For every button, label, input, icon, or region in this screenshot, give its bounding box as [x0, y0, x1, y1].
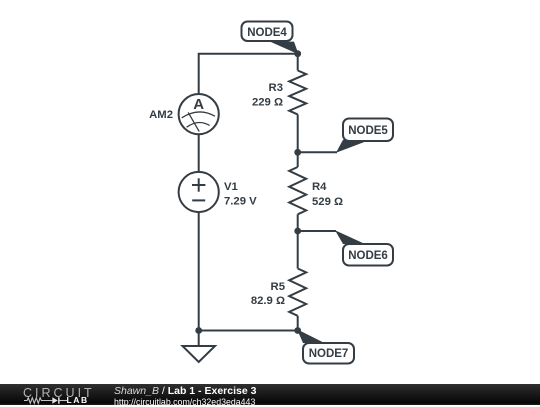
- svg-text:AM2: AM2: [149, 109, 173, 121]
- footer title line: [114, 386, 256, 396]
- svg-text:7.29 V: 7.29 V: [224, 196, 257, 208]
- wire ground stub: [198, 331, 200, 346]
- wire top horizontal: [199, 54, 298, 94]
- callout tail NODE5: [336, 140, 365, 153]
- node label box NODE6: [343, 244, 393, 266]
- wire node5 stub: [298, 151, 337, 153]
- svg-text:A: A: [193, 96, 204, 113]
- node dot NODE4: [294, 50, 301, 57]
- logo CIRCUIT: [23, 386, 95, 400]
- callout tail NODE7: [297, 329, 325, 343]
- wire R4 to node6: [297, 214, 299, 231]
- svg-text:529 Ω: 529 Ω: [312, 196, 343, 208]
- node dot NODE7: [294, 327, 301, 334]
- svg-text:NODE4: NODE4: [247, 27, 287, 39]
- resistor R4: [289, 167, 306, 214]
- logo LAB: [67, 395, 89, 405]
- voltage source V1: [179, 172, 219, 212]
- svg-text:R3: R3: [269, 82, 283, 94]
- resistor R3: [289, 71, 306, 115]
- svg-text:NODE7: NODE7: [309, 348, 349, 360]
- wire bottom horizontal: [199, 330, 298, 332]
- ground: [183, 346, 216, 362]
- ammeter AM2: [179, 94, 219, 134]
- callout tail NODE6: [335, 230, 365, 244]
- svg-text:R4: R4: [312, 181, 327, 193]
- wire V1 to bottom: [198, 212, 200, 331]
- svg-text:NODE5: NODE5: [348, 125, 388, 137]
- node dot NODE6: [294, 228, 301, 235]
- wire R5 to bottom: [297, 316, 299, 331]
- wire node6 stub: [298, 230, 336, 232]
- svg-text:V1: V1: [224, 181, 238, 193]
- svg-text:R5: R5: [271, 281, 285, 293]
- footer bar: [0, 384, 540, 405]
- wire node6 to R5: [297, 231, 299, 269]
- svg-text:229 Ω: 229 Ω: [252, 97, 283, 109]
- wire node4 to R3: [297, 54, 299, 71]
- footer url line: [114, 397, 255, 407]
- wire R3 to node5: [297, 114, 299, 152]
- wire node5 to R4: [297, 152, 299, 167]
- node label box NODE4: [242, 22, 293, 42]
- node dot ground junction: [195, 327, 202, 334]
- resistor R5: [289, 269, 306, 316]
- logo zigzag diode: [24, 396, 68, 405]
- wire ammeter to V1: [198, 134, 200, 172]
- node label box NODE7: [303, 343, 354, 364]
- svg-text:82.9 Ω: 82.9 Ω: [251, 295, 285, 307]
- node label box NODE5: [343, 119, 393, 142]
- svg-text:NODE6: NODE6: [348, 250, 388, 262]
- callout tail NODE4: [270, 42, 299, 55]
- node dot NODE5: [294, 149, 301, 156]
